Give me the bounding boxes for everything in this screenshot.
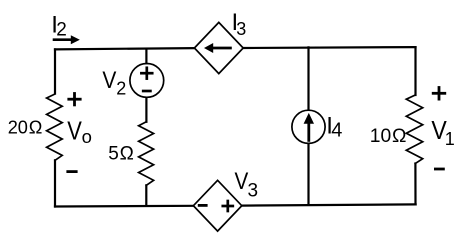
wire V2 branch top stub (145, 49, 147, 64)
svg-text:V: V (67, 118, 82, 146)
plus of V1 (right branch) (433, 88, 445, 100)
svg-text:20Ω: 20Ω (8, 118, 43, 138)
plus of Vo (left branch) (69, 94, 80, 105)
resistor R 10ohm (406, 95, 422, 164)
wire V2 to 5ohm (145, 98, 147, 122)
wire top-right segment (243, 46, 415, 49)
minus of V1 (right branch) (435, 168, 443, 171)
wire top-left segment (55, 48, 194, 49)
wire left branch upper (54, 49, 56, 93)
plus inside V3 (223, 201, 233, 211)
source I4 circle (292, 110, 325, 143)
wire right branch lower (414, 164, 416, 205)
svg-text:5Ω: 5Ω (108, 144, 134, 165)
arrow inside I3 pointing left (204, 43, 230, 53)
resistor R 20ohm (47, 94, 63, 160)
svg-text:4: 4 (331, 120, 342, 142)
svg-text:3: 3 (236, 19, 246, 39)
arrow for I2 current (54, 35, 80, 44)
arrow inside I4 pointing up (304, 113, 314, 140)
wire left branch lower (54, 160, 56, 206)
minus inside V2 (143, 90, 150, 93)
svg-text:1: 1 (445, 129, 455, 149)
svg-text:V: V (235, 168, 249, 195)
svg-text:V: V (102, 67, 116, 94)
svg-text:10Ω: 10Ω (370, 126, 407, 147)
source I3 diamond (194, 22, 243, 73)
source V3 diamond (193, 180, 241, 231)
minus of Vo (left branch) (68, 170, 76, 173)
minus inside V3 (199, 204, 206, 207)
source V2 circle (130, 64, 164, 98)
wire I4 branch upper (307, 47, 309, 109)
wire bottom-left segment (55, 205, 193, 208)
svg-text:o: o (82, 126, 92, 147)
svg-text:2: 2 (56, 19, 67, 40)
svg-text:2: 2 (116, 79, 126, 99)
wire 5ohm to bottom (145, 185, 147, 206)
wire right branch upper (414, 47, 416, 95)
wire I4 branch lower (307, 144, 309, 205)
plus inside V2 (141, 68, 152, 79)
svg-text:3: 3 (248, 181, 259, 202)
wire bottom-right segment (242, 204, 416, 205)
resistor R 5ohm (139, 122, 154, 186)
